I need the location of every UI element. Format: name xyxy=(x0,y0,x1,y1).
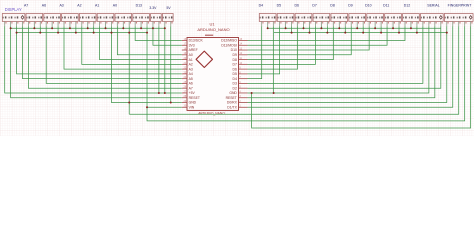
U1 left pin names D13/SCK..VIN xyxy=(189,39,204,110)
U1 left pin numbers 16-30 xyxy=(184,38,187,108)
U1 right pin numbers 15-1 xyxy=(239,38,242,108)
wire A1.3 down to U1.GND xyxy=(111,26,181,102)
svg-text:D4: D4 xyxy=(259,3,264,7)
svg-text:D13/SCK: D13/SCK xyxy=(189,39,204,43)
wire DISPLAY.3 to U1.A4 xyxy=(17,26,182,74)
wire pin2 of cell1 to 3.3V bus xyxy=(33,26,35,28)
svg-text:D8: D8 xyxy=(330,3,335,7)
svg-text:FINGERPRINT: FINGERPRINT xyxy=(448,3,473,7)
wire D12.2 to 3.3V bus (right) xyxy=(410,26,412,28)
svg-text:D12: D12 xyxy=(404,3,410,7)
wire A1.1 to U1.A1 xyxy=(100,26,182,59)
wire D11.3 to GND bus (right) xyxy=(398,26,400,32)
wire pin2 of cell3 to 3.3V bus xyxy=(69,26,71,28)
svg-text:D1/TX: D1/TX xyxy=(227,105,237,109)
svg-text:A1: A1 xyxy=(95,3,99,7)
wire pin3 of cell1 to GND bus xyxy=(39,26,41,32)
svg-text:D9: D9 xyxy=(233,53,237,57)
wire D5.1 to U1.D5 xyxy=(248,26,280,74)
wire U1.D1/TX to FINGERPRINT.2 xyxy=(248,26,453,107)
wire U1.GND to SERIAL.2 xyxy=(248,26,429,93)
junction dot +5V rail at 5V.1 xyxy=(164,92,166,94)
svg-text:RESET: RESET xyxy=(189,96,200,100)
connector DISPLAY header (4-pin) xyxy=(2,14,25,27)
wire A2.1 to U1.A2 xyxy=(82,26,182,64)
svg-text:A2: A2 xyxy=(189,63,193,67)
svg-text:ARDUINO_NANO: ARDUINO_NANO xyxy=(198,111,225,115)
svg-text:VIN: VIN xyxy=(189,105,195,109)
svg-text:ARDUINO_NANO: ARDUINO_NANO xyxy=(197,27,229,32)
wire pin3 of cell4 to GND bus xyxy=(93,26,95,32)
wire pin3 of cell3 to GND bus xyxy=(75,26,77,32)
junction dot GND rail at 5V.2 xyxy=(170,102,172,104)
connector D4 header (3-pin) xyxy=(259,14,276,27)
wire D12.3 to GND bus (right) xyxy=(416,26,418,32)
svg-text:D8: D8 xyxy=(233,58,237,62)
wire D6.1 to U1.D6 xyxy=(248,26,298,69)
svg-text:D4: D4 xyxy=(233,77,237,81)
svg-text:A4: A4 xyxy=(189,72,193,76)
svg-text:D6: D6 xyxy=(294,3,299,7)
connector D13 header (3-pin) xyxy=(133,14,150,27)
svg-text:D13: D13 xyxy=(136,3,142,7)
junction dot +5V rail at 3.3V.2 xyxy=(158,92,160,94)
wire D13.2 to 3.3V bus xyxy=(140,26,142,28)
svg-text:D5: D5 xyxy=(233,72,237,76)
svg-text:3.3V: 3.3V xyxy=(149,6,157,10)
wire D13.3 down and bottom run to FINGERPRINT.4 xyxy=(147,26,465,121)
wire U1.RESET to SERIAL.3 xyxy=(248,26,435,97)
wire D12.1 to U1.D12 xyxy=(248,26,405,40)
wire D6.3 to GND bus (right) xyxy=(308,26,310,32)
wire D4.1 to U1.D4 xyxy=(248,26,262,78)
svg-text:GND: GND xyxy=(189,101,197,105)
svg-text:D10: D10 xyxy=(231,48,237,52)
wire D9.2 to 3.3V bus (right) xyxy=(356,26,358,28)
svg-text:D3: D3 xyxy=(233,82,237,86)
wire D9.1 to U1.D9 xyxy=(248,26,352,55)
wire pin2 of cell5 to 3.3V bus xyxy=(105,26,107,28)
svg-text:SERIAL: SERIAL xyxy=(427,3,440,7)
svg-text:+5V: +5V xyxy=(189,91,196,95)
svg-text:RESET: RESET xyxy=(226,96,237,100)
junction dot GND row right at bottom loop xyxy=(251,92,253,94)
svg-text:A6: A6 xyxy=(189,82,193,86)
wire D10.1 to U1.D10 xyxy=(248,26,370,50)
wire A3.1 to U1.A3 xyxy=(64,26,182,69)
wire GND bus (right rail) xyxy=(274,32,447,34)
IC U1 ARDUINO_NANO body xyxy=(187,38,239,111)
wire DISPLAY.4 to U1.A5 xyxy=(22,26,181,78)
junction dots on 3.3V bus (right) xyxy=(267,27,412,29)
wire pin2 of cell2 to 3.3V bus xyxy=(51,26,53,28)
wire D8.2 to 3.3V bus (right) xyxy=(338,26,340,28)
value label ARDUINO_NANO (top) xyxy=(197,27,229,35)
connector D8 header (3-pin) xyxy=(331,14,348,27)
svg-text:A7: A7 xyxy=(189,86,193,90)
connector D6 header (3-pin) xyxy=(295,14,312,27)
wire D7.1 to U1.D7 xyxy=(248,26,316,64)
svg-text:3V3: 3V3 xyxy=(189,43,195,47)
svg-text:A3: A3 xyxy=(189,67,193,71)
wire D7.2 to 3.3V bus (right) xyxy=(320,26,322,28)
wire A7.1 to U1.A7 xyxy=(28,26,181,88)
svg-text:U1: U1 xyxy=(209,22,215,27)
connector A1 header (3-pin) xyxy=(97,14,114,27)
wire D5.3 to GND bus (right) xyxy=(291,26,293,32)
wire 3.3V.2 down to +5V rail xyxy=(158,26,160,93)
svg-text:D7: D7 xyxy=(233,63,237,67)
wire D11.2 to 3.3V bus (right) xyxy=(392,26,394,28)
svg-text:AREF: AREF xyxy=(189,48,198,52)
junction dots on 3.3V bus (left) xyxy=(10,27,154,29)
wire D10.3 to GND bus (right) xyxy=(380,26,382,32)
wire D10.2 to 3.3V bus (right) xyxy=(374,26,376,28)
svg-text:DISPLAY: DISPLAY xyxy=(5,7,22,12)
svg-text:D2: D2 xyxy=(233,86,237,90)
svg-text:A0: A0 xyxy=(113,3,117,7)
wire 5V.2 to GND rail xyxy=(170,26,172,102)
wire D11.1 to U1.D11 xyxy=(248,26,388,45)
svg-text:5V: 5V xyxy=(167,6,172,10)
connector A2 header (3-pin) xyxy=(79,14,96,27)
junction dot GND rail at A0.3 crossing xyxy=(128,102,130,104)
junction dots on GND bus (right) xyxy=(291,32,448,34)
connector A0 header (3-pin) xyxy=(115,14,132,27)
connector 3.3V header (2-pin) xyxy=(151,14,162,27)
svg-text:D0/RX: D0/RX xyxy=(227,101,238,105)
wire 5V.1 to +5V rail xyxy=(164,26,166,93)
svg-text:D10: D10 xyxy=(365,3,371,7)
schematic background xyxy=(0,0,474,136)
junction dot GND row right at D4.3 xyxy=(273,92,275,94)
wire D5.2 to 3.3V bus (right) xyxy=(285,26,287,28)
svg-text:A0: A0 xyxy=(189,53,193,57)
wire A6.1 to U1.A6 xyxy=(46,26,182,83)
wire D6.2 to 3.3V bus (right) xyxy=(302,26,304,28)
connector D10 header (3-pin) xyxy=(367,14,384,27)
svg-text:D5: D5 xyxy=(277,3,282,7)
connector A6 header (3-pin) xyxy=(44,14,61,27)
junction dot VIN rail at D13.3 crossing xyxy=(146,106,148,108)
wire A0.3 down to bottom loop xyxy=(128,26,130,114)
wire U1.D0/RX to FINGERPRINT.1 xyxy=(248,26,447,102)
wire GND bottom loop to FINGERPRINT.5 xyxy=(252,26,471,128)
svg-text:A6: A6 xyxy=(42,3,46,7)
wire DISPLAY.2 to U1.RESET xyxy=(11,26,182,97)
U1 left pin stubs xyxy=(182,41,187,108)
wire 3.3V bus (right rail) xyxy=(268,27,441,29)
svg-text:D11: D11 xyxy=(383,3,389,7)
wire pin2 of cell4 to 3.3V bus xyxy=(87,26,89,28)
connector A3 header (3-pin) xyxy=(62,14,79,27)
wire A0.1 to U1.A0 xyxy=(117,26,181,55)
connector D7 header (3-pin) xyxy=(313,14,330,27)
connector D5 header (3-pin) xyxy=(277,14,294,27)
wire D8.3 to GND bus (right) xyxy=(344,26,346,32)
svg-text:A2: A2 xyxy=(77,3,81,7)
wire pin2 of cell6 to 3.3V bus xyxy=(122,26,124,28)
connector D11 header (3-pin) xyxy=(385,14,402,27)
wire U1.D3 to SERIAL.1 xyxy=(248,26,423,83)
wire D9.3 to GND bus (right) xyxy=(362,26,364,32)
wire pin3 of cell2 to GND bus xyxy=(57,26,59,32)
connector SERIAL header (4-pin) xyxy=(420,14,443,27)
wire D4.3 down to GND row xyxy=(273,26,275,93)
svg-text:A7: A7 xyxy=(24,3,28,7)
svg-text:A3: A3 xyxy=(59,3,63,7)
wire D4.2 to 3.3V bus (right) xyxy=(267,26,269,28)
svg-text:D6: D6 xyxy=(233,67,237,71)
svg-text:A5: A5 xyxy=(189,77,193,81)
svg-text:GND: GND xyxy=(229,91,237,95)
U1 right pin stubs xyxy=(239,41,248,108)
wire D7.3 to GND bus (right) xyxy=(326,26,328,32)
U1 right pin names D12/MISO..D1/TX xyxy=(221,39,238,110)
connector D12 header (3-pin) xyxy=(403,14,420,27)
junction dots on GND bus (left) xyxy=(16,32,148,34)
wire DISPLAY.1 to U1.+5V xyxy=(5,26,182,93)
connector D9 header (3-pin) xyxy=(349,14,366,27)
wire GND bus (left rail) xyxy=(17,32,147,34)
wire D8.1 to U1.D8 xyxy=(248,26,334,59)
wire D13.1 to U1.D13/SCK xyxy=(135,26,182,40)
svg-text:A1: A1 xyxy=(189,58,193,62)
connector FINGERPRINT header (5-pin) xyxy=(444,14,473,27)
svg-text:D11/MOSI: D11/MOSI xyxy=(221,43,237,47)
wire 3.3V.1 to U1.3V3 xyxy=(153,26,182,45)
svg-text:D9: D9 xyxy=(348,3,353,7)
connector A7 header (3-pin) xyxy=(26,14,43,27)
svg-text:D7: D7 xyxy=(312,3,317,7)
wire bottom run GND to FINGERPRINT.3 xyxy=(129,26,458,114)
wire U1.D2 to SERIAL.4 xyxy=(248,26,441,88)
connector 5V header (2-pin) xyxy=(162,14,173,27)
wire U1.VIN row to D13.3 vertical xyxy=(147,106,182,108)
wire 3.3V bus (left rail) xyxy=(11,27,165,29)
junction dot on 3.3V bus at 5V.1 xyxy=(164,27,166,29)
svg-text:D12/MISO: D12/MISO xyxy=(221,39,237,43)
